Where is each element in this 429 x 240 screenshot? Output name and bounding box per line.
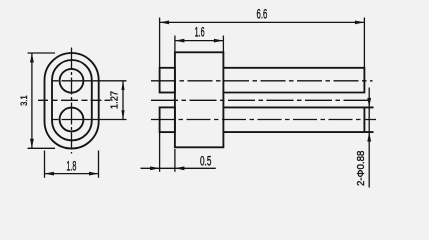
dimension 1.6 arrow right: [214, 39, 224, 43]
vertical centerline: [71, 48, 73, 154]
top circle horizontal centerline + 1.27 extension line: [52, 80, 127, 82]
dimension 2-phi0.88 arrow upper (points down to pin top): [367, 98, 371, 108]
top pin rear stub: [160, 68, 175, 93]
svg-text:1.8: 1.8: [66, 157, 76, 173]
svg-text:0.5: 0.5: [200, 153, 212, 169]
bottom pin top edge (extended as Phi0.88 extension line): [223, 106, 373, 108]
dimension 0.5 extension line left: [159, 133, 161, 172]
pin circle top: [60, 69, 84, 93]
dimension 3.1 extension line top: [28, 52, 56, 54]
dimension 0.5 arrow left (outside): [150, 166, 160, 170]
dimension 3.1 line: [31, 53, 33, 148]
dimension 6.6 arrow left: [160, 21, 170, 25]
dimension 1.8 extension line right: [98, 151, 100, 178]
svg-text:1.27: 1.27: [108, 91, 120, 109]
dimension 1.27 arrow bottom: [121, 110, 124, 119]
svg-text:6.6: 6.6: [257, 6, 268, 22]
dimension 3.1 arrow bottom: [30, 139, 34, 149]
outer stadium body outline: [45, 53, 99, 149]
bottom pin rear stub: [160, 107, 175, 132]
horizontal middle centerline: [38, 99, 111, 101]
dimension 1.6 arrow left: [175, 39, 185, 43]
dimension 1.27 arrow top: [121, 81, 124, 90]
dimension 1.8 extension line left: [44, 151, 46, 178]
dimension 0.5 arrow right (outside): [175, 166, 185, 170]
dimension 6.6 arrow right: [355, 21, 365, 25]
bottom pin bottom edge (extended as Phi0.88 extension line): [223, 131, 373, 133]
top pin end face: [363, 67, 365, 93]
svg-text:2-Φ0.88: 2-Φ0.88: [356, 150, 367, 186]
dimension 3.1 arrow top: [30, 53, 34, 63]
dimension 1.6 extension line right: [222, 36, 224, 53]
dimension 1.27 line: [122, 81, 124, 120]
inner stadium (cap) outline: [52, 60, 92, 140]
svg-text:3.1: 3.1: [19, 95, 30, 106]
package body: [175, 52, 224, 147]
pin circle bottom: [60, 108, 84, 132]
dimension 1.8 arrow right: [89, 172, 99, 176]
bottom pin end face: [363, 107, 365, 133]
dimension 2-phi0.88 line: [368, 88, 370, 188]
bottom pin centerline: [151, 119, 376, 121]
bottom circle horizontal centerline + 1.27 extension line: [52, 119, 127, 121]
dimension 2-phi0.88 arrow lower (points up to pin bottom): [367, 132, 371, 142]
dimension 1.6 line: [175, 40, 224, 42]
top pin top edge: [223, 67, 364, 69]
middle centerline: [151, 99, 373, 101]
dimension 1.8 line: [45, 173, 99, 175]
dimension 6.6 extension line left: [159, 18, 161, 68]
dimension 0.5 line: [141, 167, 216, 169]
top pin centerline: [151, 80, 373, 82]
svg-text:1.6: 1.6: [195, 23, 205, 39]
dimension 3.1 extension line bottom: [28, 147, 56, 149]
dimension 1.8 arrow left: [45, 172, 55, 176]
dimension 0.5 extension line right: [174, 149, 176, 172]
dimension 6.6 extension line right: [363, 18, 365, 68]
dimension 6.6 line: [160, 21, 365, 23]
top pin bottom edge: [223, 92, 364, 94]
dimension 1.6 extension line left: [174, 36, 176, 53]
